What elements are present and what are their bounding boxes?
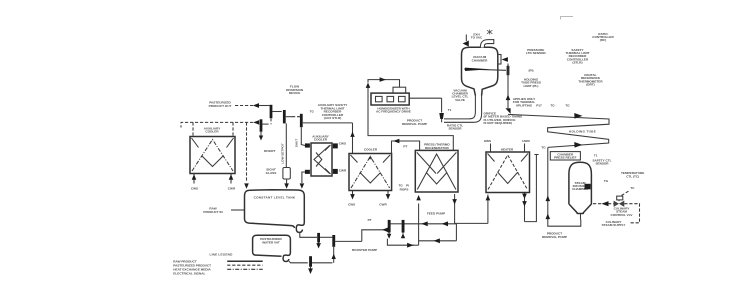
label: exh to vac (471, 33, 483, 40)
valve V1 (flow diversion device leak-detect valve) (270, 105, 279, 124)
label: ratio controller (592, 32, 614, 42)
wire: product removal pump riser to holding tube (546, 148, 581, 227)
label: auxiliary cooler (left) (204, 126, 221, 133)
heat exchanger: cooler (349, 154, 392, 191)
label: auxiliary cooler (small) (312, 134, 329, 141)
heat exchanger: regenerator (415, 150, 458, 192)
pipe: cooler CWR stub (379, 191, 390, 207)
label: safety ctl sensor (592, 158, 611, 165)
wire: vacuum chamber to homogenizer suction (409, 98, 441, 112)
wire: regenerator to heater bottom run (455, 195, 491, 224)
legend row: heat exchange media (173, 267, 262, 271)
label: safety thermal limit recorder controller (565, 48, 589, 65)
wire: CLT outlet to booster valves (300, 233, 317, 238)
wire: homogenizer recirculation loop (368, 77, 400, 87)
wire: dashed drop into aux cooler top-right (232, 122, 234, 136)
fitting: steam nozzle (585, 184, 591, 190)
svg-text:DIVERT: DIVERT (264, 149, 275, 153)
label: homogenizer (376, 106, 411, 113)
svg-text:STEAM SUPPLY: STEAM SUPPLY (602, 223, 627, 227)
wire: V2 to sight glass (285, 123, 287, 167)
pipe: heater HWR stub (524, 144, 526, 153)
svg-text:REMOVAL PUMP: REMOVAL PUMP (542, 235, 567, 239)
wire: vat outlet line (289, 261, 308, 263)
wire: pasteurized product out dashed line (235, 103, 270, 108)
svg-text:PRESS RELIEF: PRESS RELIEF (554, 156, 576, 160)
pipe: aux cooler CWR stub (228, 174, 236, 191)
label: temperature ctl (621, 171, 644, 178)
label: sight glass (266, 168, 277, 175)
wire: dashed drop into aux cooler top-left (192, 122, 194, 136)
svg-text:(RC): (RC) (600, 38, 607, 42)
svg-text:FEED PUMP: FEED PUMP (427, 212, 445, 216)
vessel: vacuum chamber (462, 47, 507, 95)
svg-text:P17: P17 (536, 104, 542, 108)
svg-text:LINE LEGEND: LINE LEGEND (210, 252, 234, 256)
fitting: small cooler bottom-right (CWR) (333, 168, 347, 174)
label: ratio ctl sensor (447, 123, 463, 130)
label: culinary steam supply (602, 220, 627, 227)
label: product removal pump (bottom) (542, 232, 567, 239)
svg-text:LTD SENSOR: LTD SENSOR (526, 51, 546, 55)
symbol: orifice (505, 108, 510, 114)
label: product removal pump (homogenizer) (402, 119, 427, 126)
fitting: small cooler top-left (305, 143, 310, 147)
wire: feed pump to regenerator inlet (416, 195, 421, 200)
svg-text:HOLDING TUBE: HOLDING TUBE (569, 129, 596, 133)
valve V3 (flow diversion device) (292, 114, 303, 127)
svg-text:HEATER: HEATER (501, 147, 514, 151)
svg-text:(AUX STLR): (AUX STLR) (324, 116, 342, 120)
wire: FDD to cooler riser (303, 123, 355, 154)
svg-text:TG: TG (550, 104, 555, 108)
pipe: vacuum chamber vent neck (482, 39, 494, 47)
valve: CLT outlet valve (316, 233, 332, 249)
wire: culinary steam to chamber (593, 201, 614, 206)
valve: culinary steam control valve (614, 191, 630, 207)
svg-text:PT: PT (368, 218, 372, 222)
valve: booster suction valve (332, 235, 362, 247)
symbol: vent arrow to vacuum pump (463, 35, 469, 47)
pipe: holding tube zigzag (508, 113, 609, 148)
svg-text:WATER VAT: WATER VAT (262, 240, 280, 244)
svg-text:UPLIFTING: UPLIFTING (516, 103, 533, 107)
svg-text:(DRT): (DRT) (586, 83, 594, 87)
svg-text:CONSTANT LEVEL TANK: CONSTANT LEVEL TANK (254, 195, 296, 199)
svg-text:HWR: HWR (522, 139, 530, 143)
wire: raw product in line (231, 209, 245, 211)
heat exchanger: auxiliary cooler (small) (311, 143, 332, 176)
svg-text:IS NOT REQUIRED): IS NOT REQUIRED) (484, 121, 513, 125)
wire: regenerator to cooler crossover (392, 139, 420, 154)
vessel: steam infusion chamber (569, 162, 592, 219)
fitting: small cooler top-right (CWS) (333, 141, 346, 148)
wire: feed pump loop (405, 204, 457, 246)
pipe: aux cooler CWS stub (191, 174, 198, 191)
wire: valve A drain to feed pump loop (387, 239, 414, 245)
svg-text:VALVE: VALVE (455, 98, 465, 102)
wire: culinary steam supply dashed (624, 204, 639, 223)
svg-text:(PI): (PI) (529, 69, 534, 73)
svg-text:ROPS: ROPS (400, 188, 409, 192)
label: culinary steam control vlv (611, 206, 634, 216)
svg-text:SHUT: SHUT (295, 139, 299, 148)
svg-text:CWS: CWS (191, 186, 198, 190)
label: holding tube press limit (521, 77, 541, 88)
heat exchanger: auxiliary cooler (left) (190, 137, 235, 174)
heat exchanger: heater (486, 152, 530, 193)
svg-text:(STLR): (STLR) (572, 61, 582, 65)
fitting: small cooler bottom-left (305, 170, 310, 174)
wire: homogenizer discharge to regenerator (366, 83, 454, 151)
tank: pasteurized water vat (253, 235, 291, 261)
label: vacuum chamber level ctl valve (452, 88, 469, 102)
svg-text:COOLER: COOLER (314, 138, 328, 142)
svg-text:TG: TG (565, 104, 570, 108)
instrument: chamber press relief box (550, 152, 580, 160)
label: auxiliary safety thermal limit recorder controller (318, 103, 349, 120)
label: digital reference thermometer (578, 73, 603, 87)
svg-text:CWR: CWR (228, 186, 236, 190)
valve: feed pump suction valve B (391, 220, 406, 238)
svg-text:COOLER: COOLER (364, 148, 378, 152)
machine: homogenizer with AC frequency drive (371, 87, 409, 105)
valve V2 (flow diversion device) (279, 110, 293, 123)
valve: vacuum breaker tee on riser (507, 66, 510, 75)
svg-text:SENSOR: SENSOR (448, 127, 462, 131)
svg-text:PT: PT (403, 144, 407, 148)
symbol: starburst (487, 30, 492, 35)
label: flow diversion device (286, 85, 304, 95)
wire: small aux cooler to constant level tank (300, 172, 305, 189)
pipe: vacuum chamber bottom outlet (444, 96, 482, 123)
svg-text:TG: TG (541, 146, 546, 150)
svg-text:CHAMBER: CHAMBER (472, 58, 489, 62)
svg-text:REGENERATOR: REGENERATOR (425, 146, 450, 150)
wire: heater outlet down (522, 155, 538, 222)
pipe: cooler CWS stub (348, 191, 355, 207)
svg-text:AC FREQUENCY DRIVE: AC FREQUENCY DRIVE (376, 110, 411, 114)
svg-text:CWR: CWR (339, 168, 347, 172)
svg-text:COOLER: COOLER (205, 130, 219, 134)
scan artifact mark (561, 17, 574, 20)
wire: booster recirculation riser (332, 247, 336, 263)
svg-text:CWS: CWS (348, 203, 355, 207)
svg-text:BOOSTER PUMP: BOOSTER PUMP (352, 248, 377, 252)
svg-text:LIMIT (PL): LIMIT (PL) (524, 84, 539, 88)
wire: level valve riser (441, 119, 443, 122)
svg-text:SENSOR: SENSOR (595, 162, 609, 166)
svg-text:GLASS: GLASS (266, 171, 277, 175)
label: applies only note (513, 97, 536, 108)
wire: holding tube feed riser (502, 57, 511, 108)
valve: vacuum chamber level control valve (439, 113, 444, 119)
label: raw product in (203, 207, 223, 214)
svg-text:CTL (TC): CTL (TC) (626, 174, 639, 178)
svg-text:LOW SETPOT: LOW SETPOT (281, 143, 285, 164)
wire: dashed divert bus (181, 122, 253, 127)
svg-text:DEVICE: DEVICE (289, 91, 301, 95)
svg-text:CONTROL VLV: CONTROL VLV (611, 213, 634, 217)
svg-text:T1: T1 (448, 108, 452, 112)
label: orifice note (484, 111, 523, 125)
svg-text:PRODUCT IN: PRODUCT IN (203, 210, 223, 214)
wire: V3 down to small aux cooler (301, 127, 305, 145)
svg-text:REMOVAL PUMP: REMOVAL PUMP (402, 122, 427, 126)
valve: feed pump suction valve A (387, 220, 391, 239)
legend row: raw product (173, 259, 262, 263)
wire: feed pump loop bottom with arrow (407, 243, 419, 248)
svg-text:TG: TG (604, 179, 609, 183)
label: pressure ltd sensor (526, 48, 546, 55)
label: pasteurized product out (209, 101, 232, 109)
svg-text:CWS: CWS (339, 141, 346, 145)
svg-text:PRODUCT OUT: PRODUCT OUT (209, 104, 232, 108)
svg-text:TO VAC: TO VAC (471, 36, 483, 40)
svg-text:ELECTRICAL SIGNAL: ELECTRICAL SIGNAL (173, 271, 205, 275)
label: regenerator (424, 143, 450, 150)
pipe: heater HWS stub (490, 144, 492, 153)
valve V4 (divert valve with drain) (253, 119, 268, 140)
sight glass (283, 168, 290, 189)
legend row: pasteurized product (173, 263, 262, 267)
tank: constant level tank (245, 190, 305, 233)
wire: booster pump discharge (362, 228, 388, 242)
svg-text:T1: T1 (594, 154, 598, 158)
wire: dashed drop to constant level tank (244, 122, 249, 188)
svg-text:CWR: CWR (379, 203, 387, 207)
wire: regenerator outlet down (452, 194, 457, 223)
valve: vat outlet valve with drain (308, 256, 332, 274)
svg-text:HWS: HWS (484, 139, 491, 143)
svg-text:TG: TG (310, 109, 315, 113)
